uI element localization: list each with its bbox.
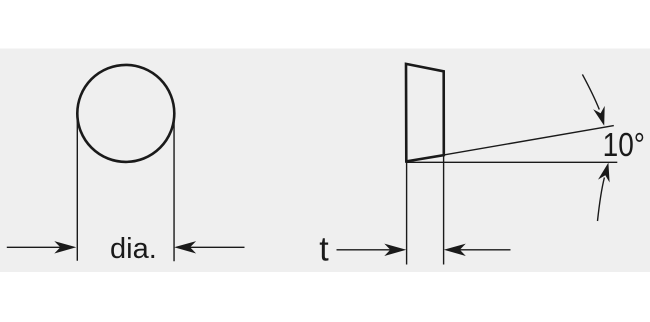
left extension line of t	[406, 162, 408, 265]
left extension line of dia	[76, 113, 78, 260]
horizontal reference line	[406, 161, 617, 163]
10-degree slant line (extended bottom face)	[406, 126, 614, 162]
left dia dimension line	[7, 246, 62, 248]
t right arrowhead	[444, 244, 466, 256]
upper angle arrowhead	[593, 106, 605, 126]
left dia arrowhead	[54, 241, 76, 253]
svg-text:t: t	[319, 230, 329, 268]
gray drawing band	[0, 49, 650, 273]
insert side view quadrilateral	[406, 64, 444, 161]
t left dimension line	[337, 249, 393, 251]
upper angle arrow shaft	[582, 74, 599, 109]
right dia arrowhead	[174, 241, 196, 253]
lower angle arrow shaft	[598, 178, 605, 222]
circle (disc front view)	[77, 65, 174, 162]
t right dimension line	[458, 249, 511, 251]
right dia dimension line	[190, 246, 245, 248]
svg-text:10°: 10°	[603, 127, 645, 164]
t left arrowhead	[384, 244, 406, 256]
svg-text:dia.: dia.	[110, 233, 157, 265]
right extension line of dia	[173, 113, 175, 261]
lower angle arrowhead	[598, 163, 610, 183]
right extension line of t	[443, 155, 445, 264]
